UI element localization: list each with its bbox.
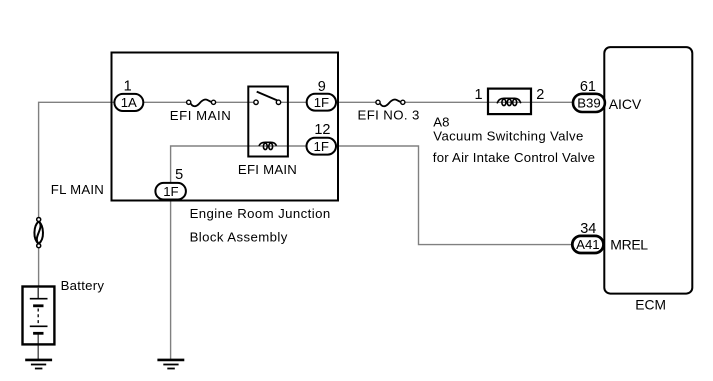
AICV net label: [609, 96, 642, 112]
connector 1A: [114, 94, 143, 111]
svg-text:Battery: Battery: [61, 278, 105, 293]
VSV name label A8 Vacuum Switching Valve for Air Intake Control Valve: [433, 114, 595, 165]
relay EFI MAIN label: [238, 162, 297, 177]
VSV pin 1 label: [475, 87, 483, 103]
relay EFI MAIN coil: [259, 142, 276, 149]
fuse EFI MAIN: [187, 100, 216, 107]
connector 1F pin 9: [307, 94, 336, 111]
svg-text:1F: 1F: [314, 139, 329, 154]
wire connector 1F pin 9 to fuse EFI NO. 3: [335, 101, 376, 103]
ECM box: [604, 47, 692, 294]
relay EFI MAIN switch contacts: [254, 92, 281, 105]
vacuum switching valve A8 box: [488, 89, 531, 115]
svg-text:Block Assembly: Block Assembly: [190, 230, 288, 245]
svg-text:1A: 1A: [121, 95, 137, 110]
svg-text:9: 9: [318, 79, 326, 95]
junction block name label: [190, 206, 331, 245]
svg-text:FL MAIN: FL MAIN: [51, 182, 104, 197]
wire from connector 1A left to fusible link (battery feed): [39, 102, 116, 217]
fuse EFI NO. 3 value label: [358, 108, 420, 123]
svg-text:B39: B39: [577, 96, 600, 111]
svg-text:EFI NO. 3: EFI NO. 3: [358, 108, 420, 123]
connector B39 (ECM AICV): [573, 94, 605, 112]
pin number 34 (ECM): [580, 221, 596, 237]
ground under battery: [25, 360, 52, 369]
wire relay coil run to connector 1F pin 12: [171, 146, 307, 184]
svg-text:1F: 1F: [314, 95, 329, 110]
svg-text:EFI MAIN: EFI MAIN: [238, 162, 297, 177]
svg-text:1: 1: [124, 78, 132, 94]
fusible link FL MAIN: [34, 218, 43, 248]
wire relay contact to connector 1F pin 9: [281, 101, 308, 103]
connector 1F pin 5: [155, 183, 186, 200]
svg-text:Engine Room Junction: Engine Room Junction: [190, 206, 331, 221]
vacuum switching valve coil: [497, 98, 521, 105]
svg-text:for Air Intake Control Valve: for Air Intake Control Valve: [433, 150, 595, 165]
svg-text:A41: A41: [576, 237, 599, 252]
wire connector 1F pin 5 to ground: [170, 199, 172, 360]
Engine Room Junction Block Assembly box: [112, 53, 339, 201]
battery label: [61, 278, 105, 293]
svg-text:EFI MAIN: EFI MAIN: [170, 108, 231, 123]
ground under junction block pin 5: [157, 360, 184, 369]
svg-text:5: 5: [175, 167, 183, 183]
fuse EFI NO. 3: [376, 100, 405, 107]
ECM name label: [635, 298, 666, 313]
wire fuse EFI MAIN to relay contact: [216, 101, 254, 103]
battery: [23, 287, 55, 345]
pin number 61 (ECM): [580, 79, 596, 95]
wire battery negative to ground: [37, 333, 39, 359]
wire fuse EFI MAIN left segment (1A to fuse): [143, 101, 186, 103]
pin number 1 (connector 1A): [124, 78, 132, 94]
wire connector 1F pin 12 to ECM pin A41 (MREL): [335, 146, 574, 245]
connector A41 (ECM MREL): [572, 236, 603, 253]
wire fusible link to battery: [38, 249, 40, 288]
pin number 5 (connector 1F): [175, 167, 183, 183]
svg-text:12: 12: [314, 122, 330, 138]
pin number 12 (connector 1F): [314, 122, 330, 138]
svg-text:1F: 1F: [163, 184, 178, 199]
svg-text:A8: A8: [433, 114, 449, 129]
svg-text:1: 1: [475, 87, 483, 103]
fuse EFI MAIN value label: [170, 108, 231, 123]
svg-text:ECM: ECM: [635, 298, 666, 313]
VSV pin 2 label: [536, 87, 544, 103]
MREL net label: [610, 237, 648, 253]
FL MAIN label: [51, 182, 104, 197]
svg-text:AICV: AICV: [609, 96, 642, 112]
connector 1F pin 12: [307, 138, 337, 155]
relay EFI MAIN box: [248, 87, 288, 157]
svg-text:Vacuum Switching Valve: Vacuum Switching Valve: [433, 129, 583, 144]
wire fuse EFI NO. 3 to VSV and to ECM pin B39: [404, 101, 574, 103]
pin number 9 (connector 1F): [318, 79, 326, 95]
svg-text:2: 2: [536, 87, 544, 103]
svg-text:MREL: MREL: [610, 237, 648, 253]
